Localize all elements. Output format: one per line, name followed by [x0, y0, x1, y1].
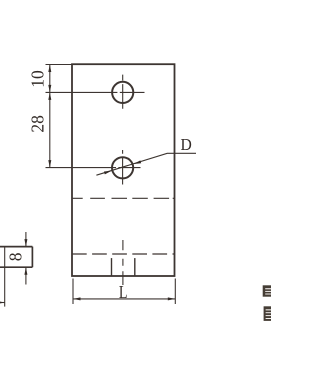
arrow down tip at hole1 centerline: [48, 85, 51, 93]
8 dimension top arrow: [24, 239, 27, 247]
svg-text:10: 10: [28, 70, 48, 88]
hole 2 circle: [112, 157, 133, 178]
side view top edge: [0, 246, 32, 248]
arrow up tip at hole1 centerline: [48, 92, 51, 100]
chinese caption fragment 2: [264, 306, 271, 321]
L dimension right arrow: [168, 297, 176, 300]
slot right edge: [134, 258, 136, 276]
8 dimension bottom arrow: [24, 267, 27, 275]
dashed bend line 1: [72, 197, 175, 199]
L extension line left: [72, 279, 74, 305]
top edge extension line: [46, 64, 73, 66]
slot centerline: [122, 240, 124, 285]
L dimension left arrow: [73, 297, 81, 300]
L dimension line: [73, 298, 175, 300]
side view right edge: [31, 247, 33, 268]
hole 1 circle: [112, 82, 133, 103]
hole 1 vertical centerline: [122, 75, 124, 109]
slot left edge: [111, 258, 113, 276]
dimension 8 arrow tails: [25, 232, 27, 285]
svg-text:D: D: [181, 135, 192, 154]
leader diagonal line for D: [96, 153, 196, 175]
svg-text:28: 28: [28, 115, 48, 133]
D leader right arrow: [134, 160, 142, 164]
side view bottom edge: [0, 266, 32, 268]
main view plate outline: [72, 64, 175, 276]
D leader left arrow: [104, 171, 112, 175]
dimension line 10/28: [49, 65, 51, 168]
svg-text:L: L: [119, 282, 128, 302]
hole 2 vertical centerline: [122, 150, 124, 185]
svg-text:8: 8: [6, 252, 26, 261]
bottom-left cut dimension arrow: [0, 301, 5, 304]
L extension line right: [174, 279, 176, 305]
chinese caption fragment 1: [263, 285, 271, 296]
side view extension line vertical: [4, 247, 6, 307]
arrow down at hole2 centerline: [48, 160, 51, 168]
arrow up at top of 10: [48, 65, 51, 73]
hole 1 horizontal centerline / extension line: [46, 91, 145, 93]
bottom-left cut dimension line: [0, 302, 5, 304]
hole 2 horizontal centerline / extension line: [46, 167, 141, 169]
dashed bend line 2: [72, 253, 175, 255]
